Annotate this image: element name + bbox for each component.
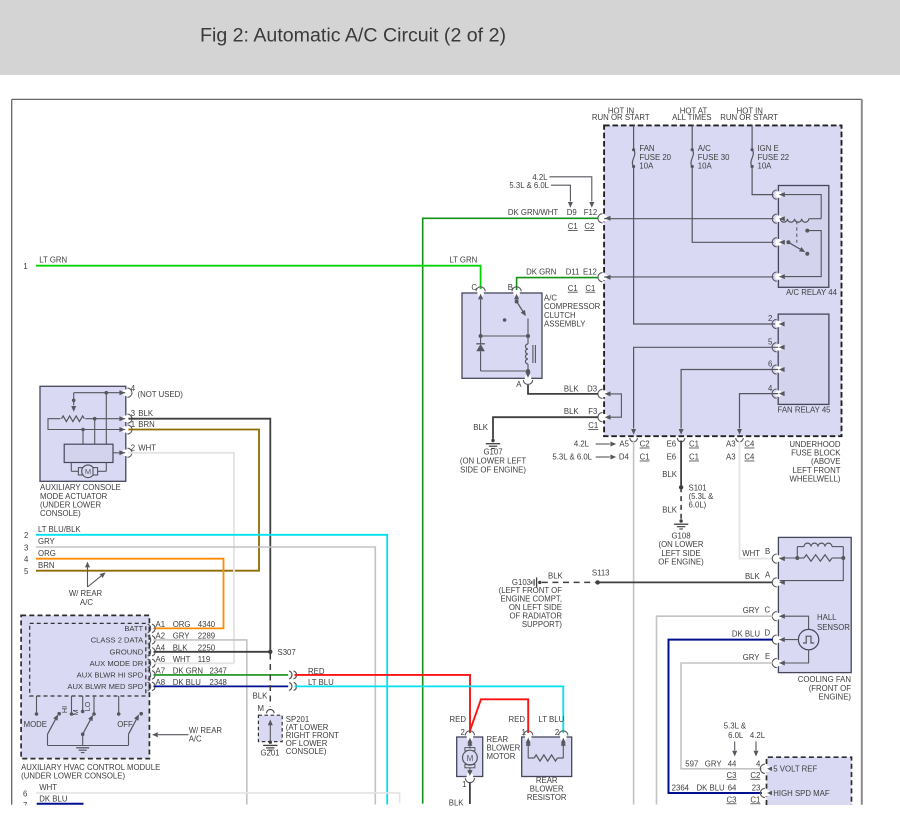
- svg-text:(5.3L &: (5.3L &: [689, 492, 715, 501]
- svg-text:OFF: OFF: [117, 720, 133, 729]
- svg-text:A3: A3: [726, 440, 736, 449]
- W/ REAR A/C pointer (module): [152, 732, 158, 737]
- fan terminal C: [775, 613, 782, 620]
- compressor clutch coil: [527, 336, 529, 344]
- wire fan relay t4 to exit A3/C4: [740, 394, 779, 429]
- wire DK GRN/WHT vertical + horizontal to F12: [423, 218, 599, 803]
- svg-text:1: 1: [131, 420, 135, 429]
- wire BLK A to D3: [528, 385, 598, 394]
- svg-text:D: D: [765, 628, 771, 637]
- splice S101: [679, 485, 683, 489]
- hall sensor circle: [798, 629, 818, 649]
- svg-text:4: 4: [131, 384, 136, 393]
- svg-text:64: 64: [728, 784, 737, 793]
- svg-text:4.2L: 4.2L: [750, 731, 766, 740]
- aux HVAC control module box (dashed): [21, 615, 149, 758]
- svg-text:A/C RELAY 44: A/C RELAY 44: [786, 288, 838, 297]
- compressor terminal B: [513, 290, 520, 297]
- svg-text:RED: RED: [509, 715, 526, 724]
- svg-text:4: 4: [768, 384, 773, 393]
- svg-text:1: 1: [462, 780, 466, 789]
- svg-text:BLK: BLK: [564, 385, 580, 394]
- wire BLK F3 to G107: [493, 417, 598, 439]
- wire WHT row 6: [36, 793, 400, 803]
- wire BLK dashed S101 to G108: [680, 487, 682, 519]
- svg-text:(NOT USED): (NOT USED): [138, 390, 184, 399]
- wire LT BLU/BLK row 2: [36, 535, 387, 805]
- svg-text:10A: 10A: [639, 162, 654, 171]
- svg-text:(UNDER LOWER CONSOLE): (UNDER LOWER CONSOLE): [21, 772, 125, 781]
- svg-text:D3: D3: [587, 385, 597, 394]
- blower motor terminal 1: [467, 773, 474, 780]
- svg-text:GRY: GRY: [705, 760, 723, 769]
- svg-text:6.0L: 6.0L: [728, 731, 744, 740]
- fan motor internal: to A: [780, 547, 844, 581]
- A/C relay armature dashed link: [796, 221, 798, 243]
- wire fuse column 2 feed: [691, 125, 693, 149]
- SP201 box (dashed): [258, 715, 282, 741]
- actuator internal: t2 lead: [113, 452, 125, 454]
- switch arm blower speed: [81, 732, 85, 736]
- svg-text:A/C: A/C: [189, 735, 202, 744]
- hall sensor glyph: [803, 636, 814, 643]
- wire BLK dashed G103 to S113: [542, 581, 596, 583]
- A/C relay NO contact + output loop: [805, 229, 809, 233]
- svg-text:ALL TIMES: ALL TIMES: [672, 113, 711, 122]
- svg-text:C1: C1: [568, 222, 578, 231]
- svg-text:FUSE 20: FUSE 20: [639, 153, 671, 162]
- wire BLK A4 to S307: [154, 651, 271, 653]
- svg-text:RED: RED: [450, 715, 467, 724]
- wire BLK S113 to fan A: [598, 581, 773, 583]
- wire WHT from exit A3/C4 to fan B: [740, 441, 773, 559]
- internal wire E12 to A/C relay output: [604, 276, 774, 278]
- fan terminal D: [775, 636, 782, 643]
- compressor diode: [480, 336, 482, 344]
- compressor terminal C: [477, 290, 484, 297]
- svg-text:CLASS 2 DATA: CLASS 2 DATA: [91, 636, 144, 645]
- svg-text:Fig 2: Automatic A/C Circuit (: Fig 2: Automatic A/C Circuit (2 of 2): [200, 25, 506, 47]
- svg-text:3: 3: [24, 543, 28, 552]
- svg-text:BLK: BLK: [473, 423, 489, 432]
- 5 VOLT REF / HIGH SPD MAF box (dashed, clipped): [767, 757, 852, 805]
- svg-text:GRY: GRY: [743, 653, 761, 662]
- svg-text:4: 4: [24, 555, 29, 564]
- svg-text:BLK: BLK: [138, 409, 154, 418]
- svg-text:E6: E6: [667, 440, 677, 449]
- svg-text:DK BLU: DK BLU: [732, 630, 761, 639]
- W/ REAR A/C pointer (rows 4-5): [87, 567, 89, 587]
- header bar: [0, 0, 900, 75]
- underhood fuse block (dashed): [604, 125, 841, 436]
- diagram frame: [12, 98, 862, 100]
- wire GRY A2 down (clipped): [154, 640, 247, 805]
- wire GRY fan E to 5 VOLT REF: [681, 663, 773, 769]
- svg-text:A: A: [765, 571, 771, 580]
- svg-text:4.2L: 4.2L: [574, 440, 590, 449]
- svg-text:RUN OR START: RUN OR START: [592, 113, 650, 122]
- svg-text:C4: C4: [744, 453, 755, 462]
- fan motor inductor: [797, 546, 804, 548]
- wire GRY from fan C down (clipped): [657, 616, 773, 804]
- svg-text:M: M: [85, 467, 91, 476]
- svg-text:6.0L): 6.0L): [689, 501, 707, 510]
- svg-text:E: E: [765, 652, 770, 661]
- svg-text:G201: G201: [260, 748, 279, 757]
- svg-text:D11: D11: [566, 268, 580, 277]
- svg-text:C: C: [471, 283, 477, 292]
- svg-text:M: M: [467, 754, 474, 763]
- module internal ground: [76, 747, 89, 749]
- svg-text:4: 4: [756, 760, 761, 769]
- svg-text:F12: F12: [584, 208, 597, 217]
- fan relay terminal 5: [775, 344, 782, 351]
- wire DK BLU fan D to HIGH SPD MAF: [669, 640, 773, 793]
- wire DK GRN B to E12: [517, 278, 599, 291]
- actuator terminal 1: [122, 426, 129, 433]
- svg-text:GROUND: GROUND: [109, 647, 143, 656]
- wire BLK from exit E6/C1 to S101: [680, 441, 682, 488]
- wire fuse column 3 feed: [751, 125, 753, 149]
- svg-text:D9: D9: [567, 208, 577, 217]
- fan motor resistor: [797, 557, 804, 559]
- svg-text:BLK: BLK: [745, 572, 761, 581]
- compressor internal: B branch + switch: [516, 300, 518, 302]
- splice S307: [268, 650, 272, 654]
- svg-text:3: 3: [131, 409, 135, 418]
- svg-text:CONSOLE): CONSOLE): [40, 509, 81, 518]
- svg-text:C1: C1: [640, 453, 650, 462]
- svg-text:C1: C1: [588, 421, 598, 430]
- A/C relay coil terminal: [775, 215, 782, 222]
- svg-text:DK GRN/WHT: DK GRN/WHT: [508, 208, 558, 217]
- wire LT BLU to blower resistor: [295, 686, 564, 733]
- svg-text:5: 5: [768, 338, 773, 347]
- wire DK BLU row 7 (clipped): [37, 803, 84, 805]
- svg-text:SIDE OF ENGINE): SIDE OF ENGINE): [460, 466, 526, 475]
- svg-text:GRY: GRY: [38, 537, 56, 546]
- wire RED to blower motor and resistor: [295, 675, 471, 733]
- terminal 5 VOLT REF: [764, 766, 771, 773]
- svg-text:E6: E6: [667, 453, 677, 462]
- wire fuse2 to A/C relay terminal (switch): [692, 167, 773, 243]
- svg-text:FUSE 30: FUSE 30: [698, 153, 730, 162]
- svg-text:LT BLU: LT BLU: [539, 715, 565, 724]
- svg-text:BRN: BRN: [138, 420, 154, 429]
- fan terminal B: [775, 555, 782, 562]
- svg-text:ORG: ORG: [173, 620, 191, 629]
- compressor internal: C branch: [480, 300, 482, 337]
- module inner box (dashed): [30, 623, 146, 696]
- wire fuse3 to A/C relay terminal 1: [752, 167, 774, 195]
- wire BLK dashed S307 to SP201: [269, 654, 271, 707]
- terminal F12 (DK GRN/WHT entry): [601, 215, 608, 222]
- svg-text:LT GRN: LT GRN: [449, 255, 477, 264]
- svg-text:2: 2: [24, 531, 28, 540]
- actuator wiper arrow: [73, 393, 75, 406]
- svg-text:1: 1: [521, 728, 525, 737]
- svg-text:DK BLU: DK BLU: [39, 794, 68, 803]
- actuator terminal 3: [122, 415, 129, 422]
- svg-text:44: 44: [728, 760, 737, 769]
- fan motor internal: B node: [780, 557, 798, 559]
- wire BLK actuator t3 to S307: [128, 419, 270, 652]
- svg-text:10A: 10A: [758, 162, 773, 171]
- svg-text:MODE: MODE: [24, 720, 47, 729]
- splice S113: [596, 580, 600, 584]
- svg-text:C: C: [765, 606, 771, 615]
- svg-text:SENSOR: SENSOR: [817, 623, 850, 632]
- svg-text:5.3L & 6.0L: 5.3L & 6.0L: [552, 453, 592, 462]
- fuse FAN FUSE 20 10A: [632, 148, 635, 151]
- wire WHT A6: [154, 662, 235, 664]
- svg-text:M: M: [258, 704, 265, 713]
- svg-text:S101: S101: [689, 483, 707, 492]
- relay A/C RELAY 44 box: [778, 186, 828, 288]
- svg-text:HIGH SPD MAF: HIGH SPD MAF: [773, 789, 830, 798]
- svg-text:23: 23: [752, 784, 761, 793]
- connector A8 DK BLU to LT BLU: [289, 682, 292, 690]
- actuator resistor: [62, 416, 85, 422]
- svg-text:5: 5: [24, 567, 29, 576]
- svg-text:G107: G107: [483, 448, 502, 457]
- fan relay terminal 6: [775, 366, 782, 373]
- svg-text:ENGINE): ENGINE): [819, 692, 852, 701]
- svg-text:B: B: [765, 547, 770, 556]
- svg-text:DK BLU: DK BLU: [697, 784, 726, 793]
- SP201 internal arrow: [269, 722, 271, 742]
- rear blower motor box: [457, 737, 483, 777]
- svg-text:C3: C3: [727, 795, 737, 804]
- resistor terminal 1: [525, 734, 532, 741]
- actuator controller sub-box: [64, 444, 113, 462]
- svg-text:AUX BLWR HI SPD: AUX BLWR HI SPD: [77, 671, 144, 680]
- exit arc E6/C1: [677, 438, 685, 442]
- svg-text:OF ENGINE): OF ENGINE): [658, 557, 704, 566]
- svg-text:A/C: A/C: [80, 598, 93, 607]
- wire GRY from exit A5/C2 down (clipped): [633, 441, 635, 805]
- terminal E12 (DK GRN entry): [601, 274, 608, 281]
- compressor internal: crossbar: [481, 335, 528, 337]
- svg-text:RESISTOR: RESISTOR: [527, 793, 567, 802]
- svg-text:6: 6: [23, 789, 27, 798]
- fan terminal A: [775, 579, 782, 586]
- switch arm MODE: [48, 719, 56, 734]
- relay FAN RELAY 45 box: [778, 314, 829, 404]
- svg-text:C4: C4: [744, 440, 755, 449]
- terminal HIGH SPD MAF: [764, 790, 771, 797]
- svg-text:WHT: WHT: [138, 443, 156, 452]
- actuator terminal 4 (NOT USED): [122, 389, 129, 396]
- svg-text:597: 597: [685, 760, 698, 769]
- exit arc A3/C4: [736, 438, 744, 442]
- internal jumper D3 to F3: [606, 394, 622, 417]
- A/C relay switch arm: [786, 240, 790, 244]
- wire BLK blower motor to clip: [469, 783, 471, 805]
- svg-text:5 VOLT REF: 5 VOLT REF: [773, 765, 817, 774]
- compressor terminal A: [525, 375, 532, 382]
- svg-text:D4: D4: [619, 453, 630, 462]
- resistor internals: [526, 740, 531, 746]
- svg-text:BLK: BLK: [548, 572, 564, 581]
- svg-text:BLK: BLK: [253, 691, 269, 700]
- svg-text:AUX MODE DR: AUX MODE DR: [90, 659, 144, 668]
- svg-text:FAN RELAY 45: FAN RELAY 45: [777, 405, 831, 414]
- svg-text:A5: A5: [619, 440, 629, 449]
- A/C relay switch-feed terminal: [775, 239, 782, 246]
- wire ORG row 4: [36, 559, 224, 629]
- svg-text:BRN: BRN: [38, 561, 54, 570]
- exit arc A5/C2: [630, 438, 638, 442]
- svg-text:A: A: [516, 380, 522, 389]
- ground G108: [679, 519, 682, 522]
- svg-text:ASSEMBLY: ASSEMBLY: [544, 319, 586, 328]
- svg-text:C3: C3: [727, 771, 737, 780]
- svg-text:2: 2: [131, 443, 135, 452]
- svg-text:E12: E12: [583, 268, 597, 277]
- svg-text:B: B: [508, 283, 513, 292]
- A/C relay internal wire: feed loop: [780, 195, 822, 219]
- svg-text:LT BLU/BLK: LT BLU/BLK: [38, 525, 81, 534]
- svg-text:A3: A3: [726, 453, 736, 462]
- wire LT GRN row 1: [36, 266, 481, 289]
- svg-text:F3: F3: [588, 407, 597, 416]
- svg-text:M: M: [71, 710, 80, 716]
- fan terminal E: [775, 660, 782, 667]
- ground G107: [491, 439, 494, 442]
- svg-text:C1: C1: [585, 284, 595, 293]
- connector A7 DK GRN to RED: [289, 671, 292, 679]
- blower motor internals: [467, 740, 472, 746]
- wire fan relay t6 to exit E6/C1: [681, 370, 778, 429]
- fuse A/C FUSE 30 10A: [691, 148, 694, 151]
- svg-text:C1: C1: [689, 453, 699, 462]
- svg-text:C2: C2: [584, 222, 594, 231]
- svg-text:2: 2: [768, 314, 772, 323]
- wire BRN actuator t1 to row 5: [36, 430, 259, 571]
- switch common rail: [47, 734, 49, 745]
- svg-text:C2: C2: [640, 440, 650, 449]
- svg-text:6: 6: [768, 360, 772, 369]
- svg-text:WHT: WHT: [742, 549, 760, 558]
- svg-text:ORG: ORG: [38, 549, 56, 558]
- wire fuse1 to fan relay terminal 2: [634, 167, 779, 325]
- svg-text:MOTOR: MOTOR: [487, 752, 516, 761]
- svg-text:LT GRN: LT GRN: [39, 255, 67, 264]
- svg-text:A1: A1: [156, 620, 166, 629]
- fan relay terminal 2: [775, 321, 782, 328]
- svg-text:BLK: BLK: [662, 505, 678, 514]
- svg-text:C1: C1: [568, 284, 578, 293]
- svg-text:HI: HI: [60, 706, 69, 713]
- svg-text:S307: S307: [278, 648, 296, 657]
- wire fuse column 1 feed: [633, 125, 635, 149]
- actuator internal: verticals to controller: [82, 430, 84, 445]
- aux console mode actuator box: [40, 386, 126, 481]
- A/C relay terminal (ign feed): [775, 191, 782, 198]
- svg-text:HALL: HALL: [817, 613, 837, 622]
- svg-text:DK GRN: DK GRN: [526, 268, 556, 277]
- svg-text:WHEELWELL): WHEELWELL): [790, 474, 841, 483]
- wire DK BLU A8 to connector: [154, 685, 289, 687]
- A/C compressor clutch assembly box: [462, 293, 542, 378]
- A/C relay output terminal: [775, 273, 782, 280]
- svg-text:C2: C2: [750, 771, 760, 780]
- cooling fan box: [778, 537, 851, 672]
- clip mask bottom: [0, 806, 900, 823]
- svg-text:S113: S113: [592, 568, 610, 577]
- svg-text:BATT: BATT: [124, 624, 143, 633]
- actuator internal: left bracket to t1: [48, 419, 125, 430]
- actuator motor M: [70, 463, 72, 472]
- wire DK GRN A7 to connector: [154, 674, 289, 676]
- wire GRY row 3: [36, 547, 375, 805]
- terminal F3 (BLK return): [601, 414, 608, 421]
- svg-text:C1: C1: [689, 440, 699, 449]
- actuator internal: resistor right to t3: [85, 418, 125, 420]
- svg-text:5.3L & 6.0L: 5.3L & 6.0L: [509, 181, 549, 190]
- resistor terminal 2: [560, 734, 567, 741]
- switch arm OFF: [129, 719, 137, 734]
- hall wiring C/D/E: [780, 616, 809, 629]
- wire WHT actuator t2 to module A6: [128, 453, 234, 664]
- ground G103: [538, 581, 541, 584]
- svg-text:10A: 10A: [698, 162, 713, 171]
- blower motor terminal 2: [467, 734, 474, 741]
- internal wire F12 to A/C relay coil: [604, 218, 774, 220]
- rear blower resistor box: [522, 737, 572, 777]
- svg-text:5.3L &: 5.3L &: [724, 722, 747, 731]
- svg-text:C1: C1: [750, 795, 760, 804]
- A/C relay coil: [780, 219, 809, 223]
- terminal D3 (BLK entry): [601, 391, 608, 398]
- wire fan relay t5 to exit A5/C2: [634, 347, 779, 428]
- svg-text:BLK: BLK: [564, 407, 580, 416]
- svg-text:AUX BLWR MED SPD: AUX BLWR MED SPD: [67, 682, 143, 691]
- actuator internal: terminal-4 rail: [74, 392, 126, 394]
- module switch stubs: [36, 696, 38, 714]
- svg-text:SUPPORT): SUPPORT): [522, 620, 563, 629]
- svg-text:4340: 4340: [198, 620, 216, 629]
- svg-text:1: 1: [23, 262, 27, 271]
- svg-text:RUN OR START: RUN OR START: [720, 113, 778, 122]
- svg-text:2364: 2364: [672, 784, 690, 793]
- svg-text:2: 2: [555, 728, 559, 737]
- actuator terminal 2: [122, 450, 129, 457]
- svg-text:(ON LOWER LEFT: (ON LOWER LEFT: [460, 457, 527, 466]
- svg-text:2: 2: [460, 728, 464, 737]
- fuse IGN E FUSE 22 10A: [751, 148, 754, 151]
- svg-text:WHT: WHT: [39, 783, 57, 792]
- svg-text:FUSE 22: FUSE 22: [758, 153, 790, 162]
- svg-text:LO: LO: [83, 701, 92, 711]
- svg-text:CONSOLE): CONSOLE): [286, 747, 327, 756]
- fan relay terminal 4: [775, 390, 782, 397]
- ground G201: [269, 741, 272, 744]
- svg-text:BLK: BLK: [662, 470, 678, 479]
- svg-text:GRY: GRY: [743, 606, 761, 615]
- compressor internal bottom bar: [481, 370, 528, 372]
